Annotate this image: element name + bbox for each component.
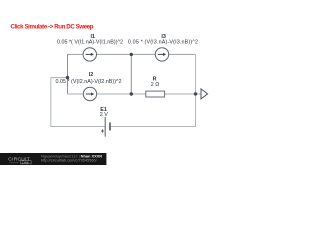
wire left rail vertical (50, 78, 52, 127)
svg-text:LAB: LAB (22, 160, 29, 164)
wire top row left lead (68, 53, 84, 55)
junction dot top middle (130, 53, 133, 56)
footer logo LAB box (20, 161, 31, 164)
wire left-top vertical (67, 54, 69, 94)
svg-text:2 V: 2 V (100, 112, 108, 118)
svg-text:0.05 * (V(I3.nA)-V(I3.nB))^2: 0.05 * (V(I3.nA)-V(I3.nB))^2 (128, 39, 198, 45)
svg-text:0.05 *( V(I1.nA)-V(I1.nB))^2: 0.05 *( V(I1.nA)-V(I1.nB))^2 (57, 39, 123, 45)
resistor R body (146, 91, 165, 97)
junction dot right rail (194, 92, 197, 95)
current source I3 (155, 48, 168, 61)
battery E1 long plate (104, 117, 106, 137)
wire right rail vertical (195, 54, 197, 127)
wire top row right segment (169, 53, 196, 55)
battery plus sign (101, 129, 104, 132)
svg-text:I2: I2 (89, 72, 94, 78)
wire middle vertical (130, 54, 132, 94)
footer bar (0, 153, 106, 165)
wire bottom row right of battery (110, 126, 196, 128)
svg-text:http://circuitlab.com/c/795455: http://circuitlab.com/c/79545566/ (41, 159, 98, 163)
junction dot left branch (66, 76, 69, 79)
wire I2 row left lead (68, 93, 84, 95)
wire top row middle segment (97, 53, 156, 55)
battery E1 short plate (109, 122, 111, 130)
svg-text:2 Ω: 2 Ω (151, 82, 160, 88)
svg-text:Click Simulate -> Run DC Sweep: Click Simulate -> Run DC Sweep (11, 23, 94, 30)
wire left branch horizontal (51, 77, 68, 79)
wire R to right rail (165, 93, 196, 95)
wire output tap (196, 93, 202, 95)
wire bottom row left of battery (50, 126, 105, 128)
junction dot I2 row middle (130, 92, 133, 95)
current source I1 (83, 48, 96, 61)
output flag triangle (201, 89, 208, 99)
current source I2 (83, 87, 96, 100)
svg-text:Nguyenduychau2112 | Nhan XXXR: Nguyenduychau2112 | Nhan XXXR (41, 153, 102, 158)
svg-text:∼∼∼: ∼∼∼ (9, 160, 18, 164)
wire I2 row to R (97, 93, 146, 95)
svg-text:0.05 * (V(I2.nA)-V(I2.nB))^2: 0.05 * (V(I2.nA)-V(I2.nB))^2 (55, 79, 121, 85)
